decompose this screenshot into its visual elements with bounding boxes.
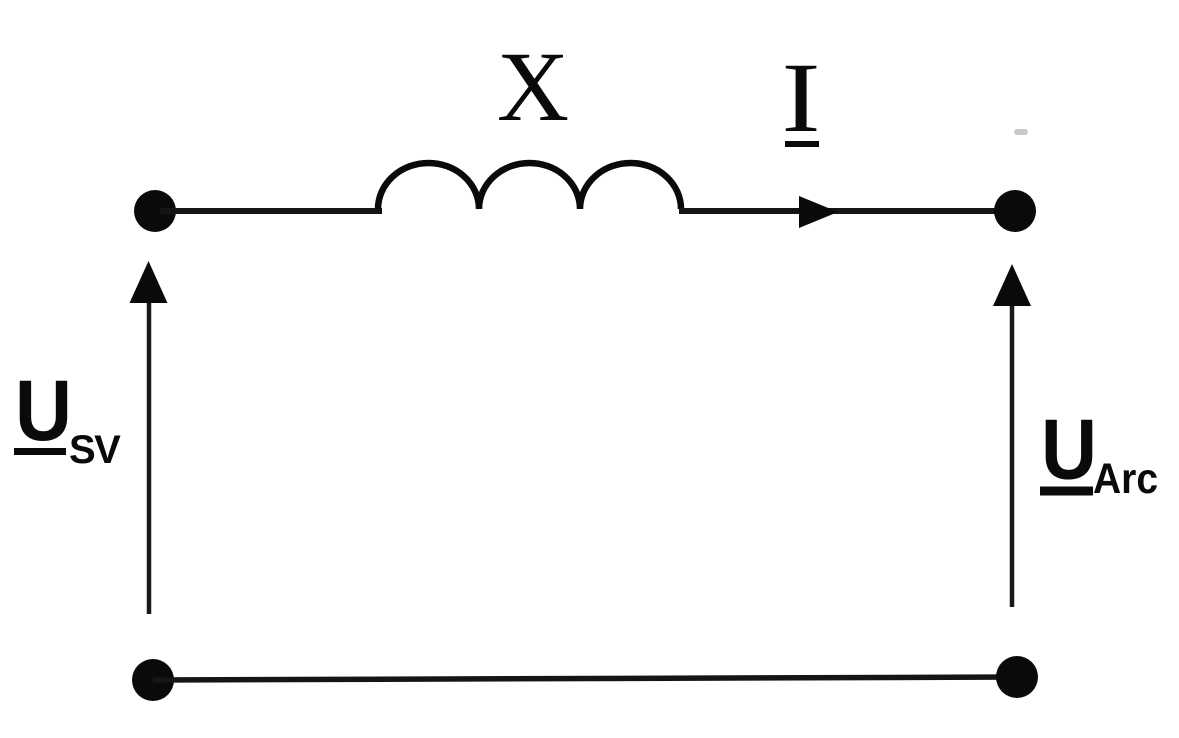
svg-text:Arc: Arc (1093, 455, 1158, 503)
voltage arrow Usv head (130, 261, 168, 303)
artifact smudge (1014, 129, 1028, 135)
underline of I (785, 141, 819, 147)
svg-text:X: X (497, 31, 569, 142)
wire top-left segment (160, 208, 382, 214)
voltage arrow Usv stem (147, 300, 152, 614)
node top-right (994, 190, 1036, 232)
voltage arrow Uarc head (993, 264, 1031, 306)
svg-text:U: U (15, 363, 72, 459)
wire bottom (153, 677, 1017, 680)
underline of Usv (14, 448, 66, 455)
svg-text:I: I (782, 42, 821, 153)
underline of Uarc (1040, 487, 1093, 496)
inductor X (378, 163, 681, 209)
node bottom-left (132, 659, 174, 701)
node bottom-right (996, 656, 1038, 698)
node top-left (134, 190, 176, 232)
voltage arrow Uarc stem (1010, 302, 1015, 607)
svg-text:U: U (1041, 403, 1097, 498)
wire top-right segment (679, 208, 1010, 214)
current arrowhead I (799, 196, 838, 228)
svg-text:SV: SV (69, 428, 121, 472)
